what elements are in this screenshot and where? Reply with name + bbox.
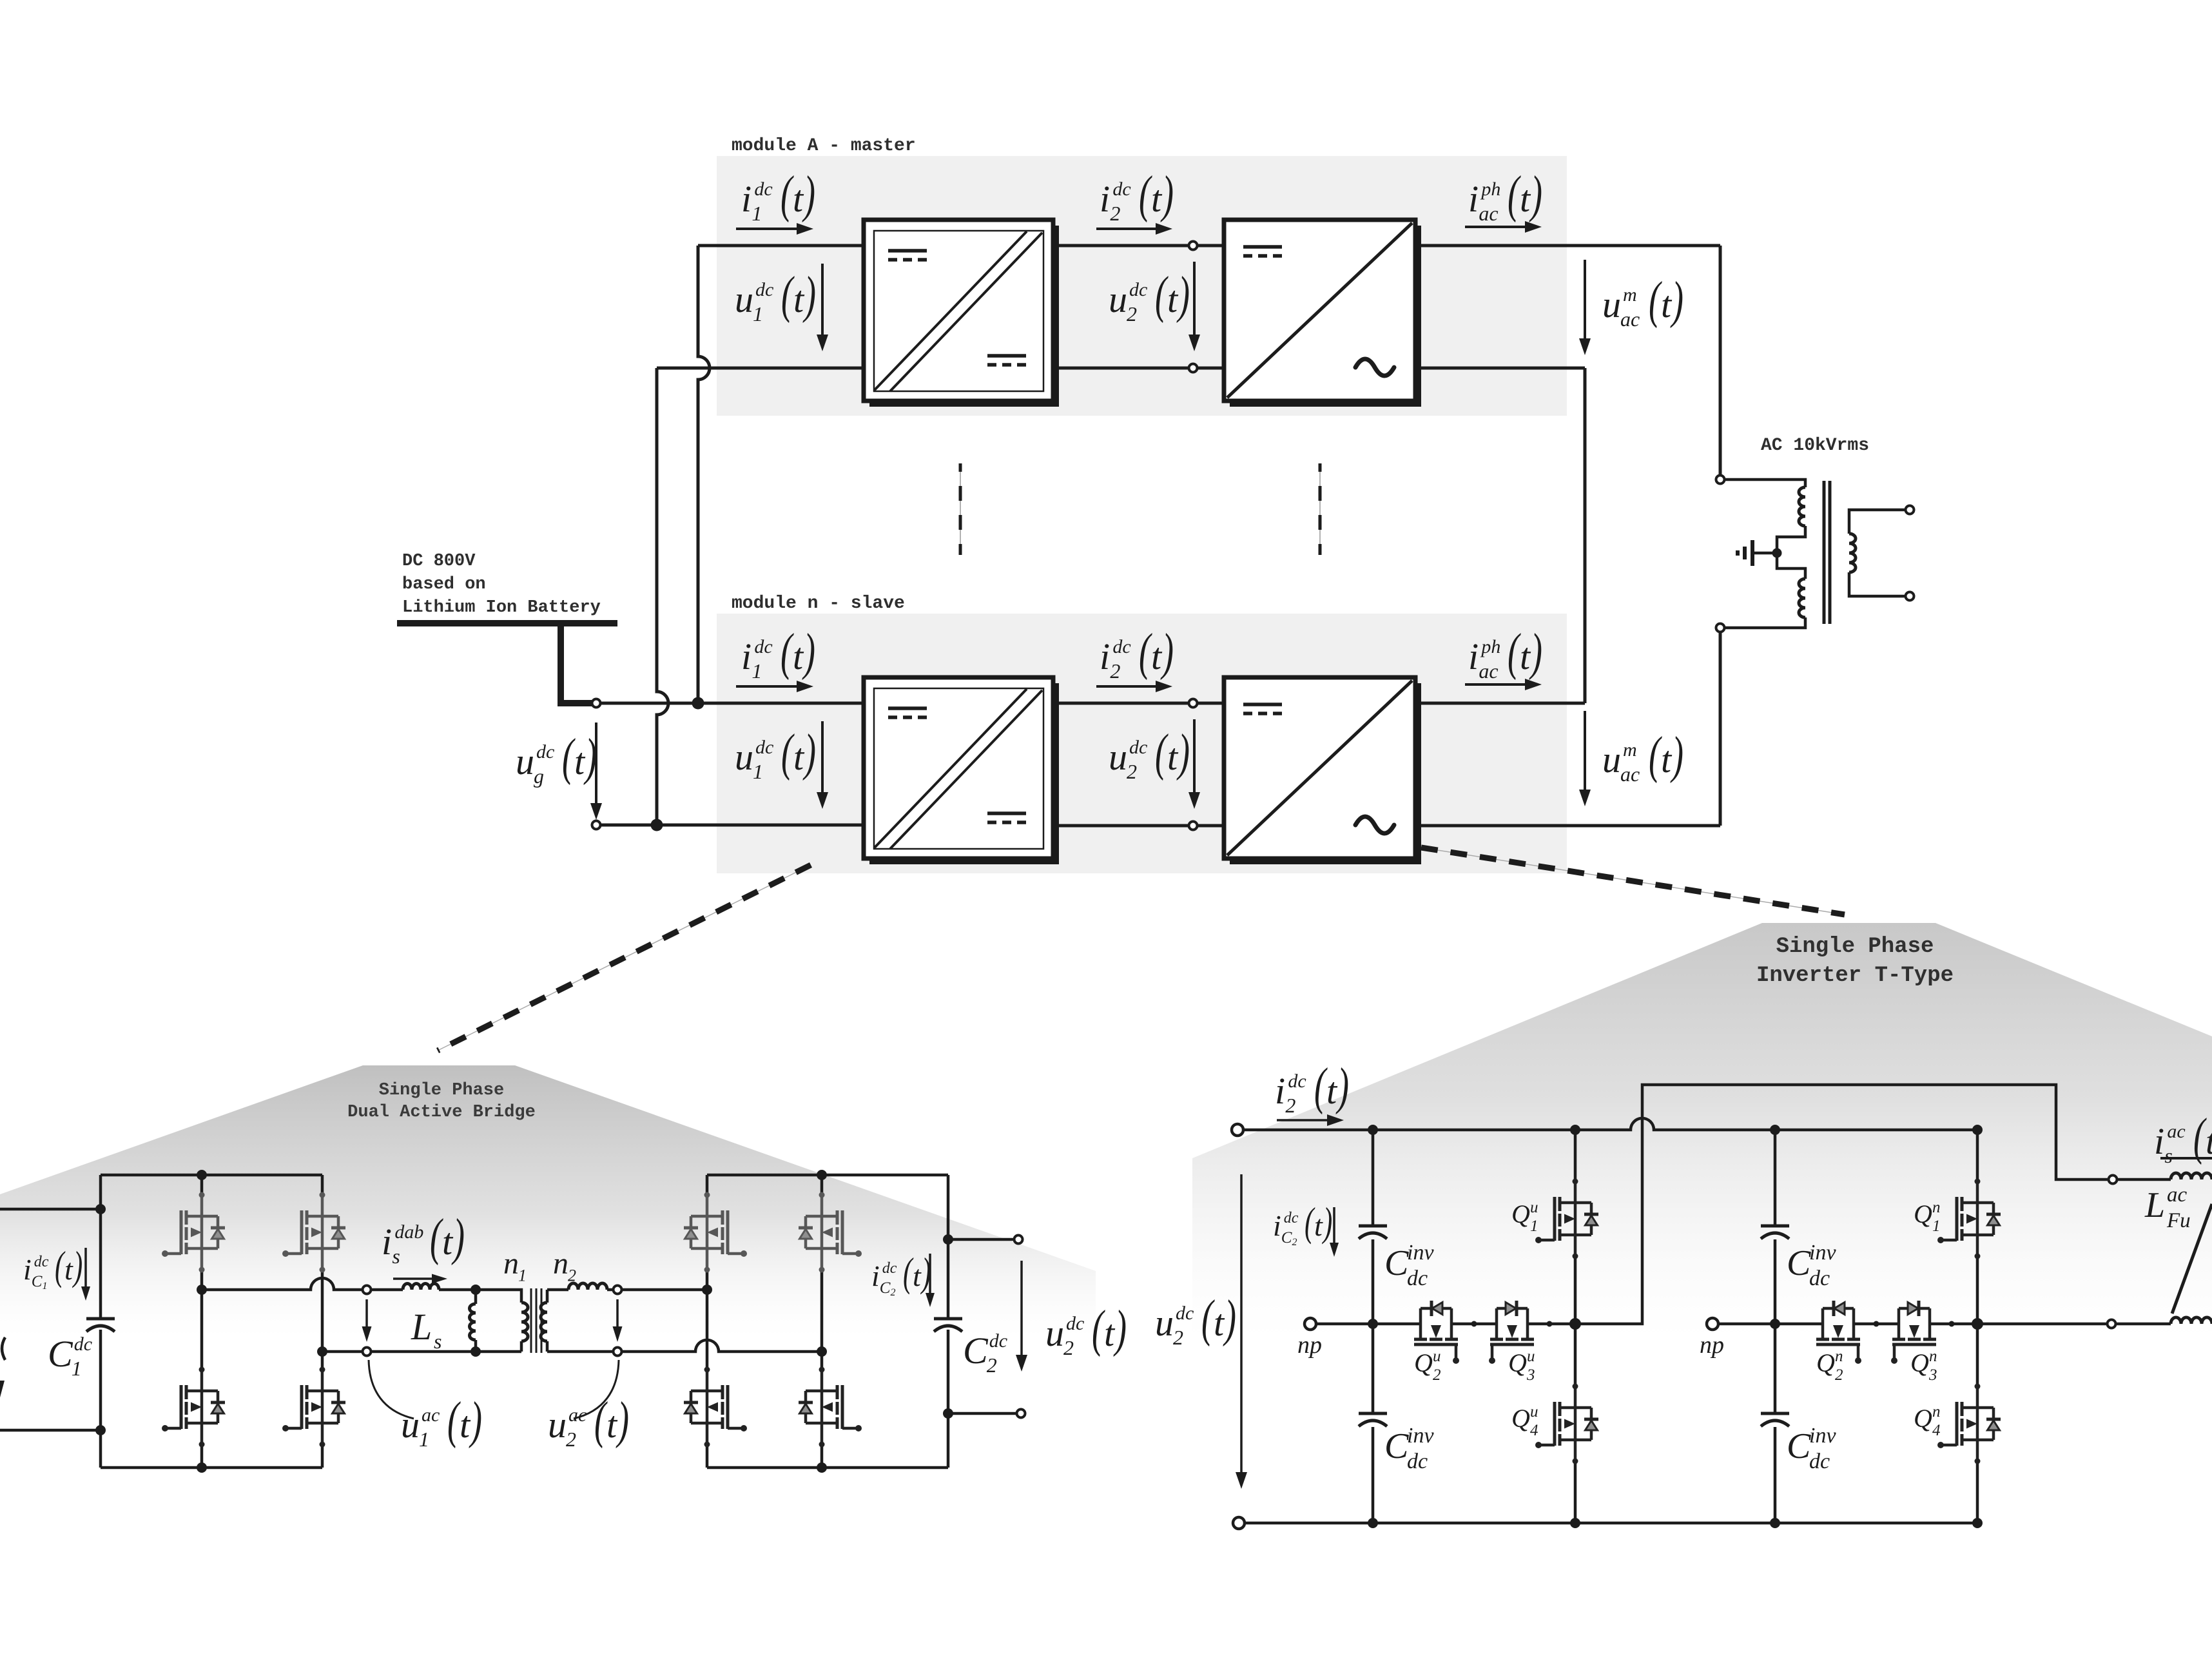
wire out- to terminal (948, 1412, 1016, 1415)
svg-text:t: t (1661, 739, 1673, 781)
wire: A dcac out - (1415, 367, 1585, 370)
wire coil2 to bottom terminal (1725, 617, 1805, 628)
svg-text:Cinvdc: Cinvdc (1384, 1424, 1434, 1473)
node u2ac + (614, 1286, 622, 1294)
svg-text:): ) (72, 1243, 83, 1288)
wire: DAB right leg2 (820, 1175, 824, 1468)
junction leg1 midpoint (197, 1285, 207, 1295)
wire: feed + from left edge (0, 1208, 101, 1211)
svg-text:): ) (616, 1391, 629, 1448)
node n dc-link + (1189, 699, 1198, 708)
arrow uac n (1584, 711, 1586, 790)
arrow u1 A (821, 264, 824, 335)
arrow u1 n (821, 721, 824, 792)
wire: A dcdc to dcac + (1053, 244, 1224, 247)
svg-text:iphac: iphac (1468, 635, 1500, 683)
pin dot Q3/leg n (1949, 1321, 1955, 1327)
transistor Q3 u (1489, 1301, 1534, 1364)
svg-text:t: t (793, 635, 804, 677)
arrow is dab (393, 1277, 432, 1280)
junction right leg2 mid (817, 1346, 827, 1357)
transistor DAB S6 (684, 1367, 747, 1448)
wire: lower ac out (322, 1350, 362, 1353)
svg-text:t: t (460, 1404, 471, 1446)
wire: feed - from left edge (0, 1429, 101, 1432)
wire: A dcac out + (1415, 244, 1720, 247)
transistor Q2 n (1816, 1301, 1861, 1364)
junction right leg1 mid (702, 1285, 712, 1295)
svg-text:udcg: udcg (516, 741, 554, 788)
core line 1 (530, 1288, 532, 1353)
core line 3 (541, 1288, 543, 1353)
node u1ac + (363, 1286, 371, 1294)
wire: down to transformer top (1719, 246, 1722, 475)
ellipsis dashes x=2048 (1319, 463, 1321, 555)
capacitor Cdcinv upper u (1359, 1226, 1387, 1239)
transistor DAB S8 (799, 1367, 862, 1448)
svg-text:iphac: iphac (1468, 178, 1500, 225)
node A dc-link - (1189, 364, 1198, 373)
primary coil 1 (1799, 487, 1805, 526)
junction magnetizing bottom (471, 1346, 481, 1357)
capacitor Cdcinv lower n (1761, 1413, 1789, 1426)
wire Q2-Q3 u (1451, 1323, 1497, 1326)
inductor lower coil (2171, 1317, 2212, 1324)
transformer core line 2 (1829, 481, 1832, 624)
core line 2 (536, 1288, 538, 1353)
cropped left-edge glyph (2, 1337, 5, 1360)
DC-AC inverter block (module n) (1230, 683, 1421, 864)
node n dc-link - (1189, 822, 1198, 830)
svg-text:idc2: idc2 (1275, 1070, 1306, 1117)
wire: u output loop (1575, 1085, 2108, 1324)
svg-text:): ) (1670, 271, 1683, 328)
wire np to Q2 u (1316, 1323, 1421, 1326)
junction cap rail mid n (1770, 1319, 1780, 1329)
wire to right bridge leg1 mid (622, 1288, 707, 1292)
wire: n dcdc to dcac - (1053, 824, 1224, 828)
svg-text:): ) (1670, 726, 1683, 783)
junction battery- / A- riser (651, 819, 663, 831)
svg-text:AC 10kVrms: AC 10kVrms (1761, 436, 1869, 456)
pin dot Q2/Q3 u (1471, 1321, 1477, 1327)
wire to Ls (371, 1288, 403, 1292)
svg-text:module A - master: module A - master (732, 136, 916, 156)
wire: cap rail u (1372, 1130, 1375, 1523)
arrow u2 n (1193, 719, 1196, 792)
transistor DAB S5 (684, 1192, 747, 1273)
wire np to Q2 n (1718, 1323, 1823, 1326)
svg-text:): ) (1335, 1057, 1349, 1114)
junction leg1 top (197, 1170, 207, 1180)
junction cap rail top n (1770, 1125, 1780, 1135)
svg-text:Qn2: Qn2 (1816, 1348, 1843, 1384)
wire out+ to terminal (948, 1238, 1014, 1241)
DC-AC inverter block (module A) (1230, 226, 1421, 407)
wire node to primary winding (476, 1290, 521, 1303)
svg-text:t: t (1104, 1312, 1116, 1354)
arrow i1 A (736, 228, 797, 230)
svg-text:uac2: uac2 (548, 1404, 587, 1451)
ground symbol (1751, 540, 1754, 566)
svg-text:t: t (442, 1221, 454, 1263)
node T-type in - (1233, 1517, 1245, 1529)
junction right leg2 bottom (817, 1462, 827, 1473)
junction magnetizing top (471, 1285, 481, 1295)
svg-text:): ) (802, 723, 816, 781)
wire: battery+ riser with hop over A- wire (698, 246, 710, 703)
svg-text:t: t (913, 1259, 922, 1292)
svg-text:t: t (1214, 1302, 1225, 1344)
DC-DC converter block (module A) (869, 226, 1059, 407)
wire to LFu (2117, 1178, 2171, 1181)
junction cap rail top u (1368, 1125, 1378, 1135)
junction right leg2 top (817, 1170, 827, 1180)
wire: module A input - (657, 367, 863, 370)
capacitor C1dc (86, 1319, 115, 1332)
magnetizing inductor branch (474, 1290, 478, 1304)
junction leg bottom n (1972, 1518, 1983, 1528)
svg-text:t: t (1326, 1070, 1338, 1112)
svg-text:t: t (1314, 1209, 1323, 1242)
battery bus bar (397, 620, 617, 626)
battery - terminal (592, 821, 601, 829)
arrow u2dc T-type (1240, 1174, 1243, 1472)
transistor Q4 n (1937, 1384, 2001, 1464)
wire Q2-Q3 n (1854, 1323, 1899, 1326)
transformer core line 1 (1823, 481, 1826, 624)
underline is ac (2160, 1157, 2212, 1159)
magnetizing coil (470, 1304, 476, 1340)
transistor DAB S2 (162, 1367, 225, 1448)
wire secondary bottom (1849, 572, 1905, 596)
pin dot Q3/leg u (1547, 1321, 1553, 1327)
node u2ac - (614, 1348, 622, 1356)
capacitor Cdcinv lower u (1359, 1413, 1387, 1426)
arrow u2ac (616, 1299, 619, 1326)
junction cap rail bottom n (1770, 1518, 1780, 1528)
svg-text:): ) (1529, 165, 1542, 222)
arrow i1 n (736, 685, 797, 688)
svg-text:udc2: udc2 (1155, 1302, 1194, 1349)
arrow iac n (1465, 683, 1525, 686)
battery + terminal (592, 699, 601, 708)
transformer primary bottom terminal (1716, 624, 1725, 632)
transistor DAB S1 (162, 1192, 225, 1273)
svg-text:): ) (802, 623, 815, 680)
svg-text:t: t (793, 736, 805, 778)
wire: n dcac out - (1415, 824, 1720, 828)
wire: n output (1977, 1323, 2107, 1326)
node np u (1305, 1318, 1316, 1330)
svg-text:): ) (1113, 1299, 1127, 1357)
svg-text:Qu2: Qu2 (1414, 1348, 1441, 1384)
node u2dc - (1017, 1410, 1025, 1418)
primary winding n1 (521, 1303, 528, 1341)
svg-text:umac: umac (1602, 739, 1640, 786)
junction battery+ / A riser (692, 697, 704, 710)
junction leg top n (1972, 1125, 1983, 1135)
svg-text:t: t (1167, 278, 1179, 320)
junction leg2 midpoint (317, 1346, 327, 1357)
wire: DAB leg1 (200, 1175, 204, 1468)
secondary series coil (568, 1283, 607, 1290)
wire: DAB right leg1 (706, 1175, 709, 1468)
junction cap rail bottom u (1368, 1518, 1378, 1528)
svg-text:t: t (64, 1253, 73, 1286)
junction leg mid n (1972, 1318, 1983, 1330)
transistor Q2 u (1414, 1301, 1459, 1364)
transistor DAB S3 (282, 1192, 345, 1273)
wire: right bridge top rail (707, 1174, 948, 1177)
svg-text:): ) (1529, 623, 1542, 680)
svg-text:t: t (1520, 178, 1531, 220)
T-type spotlight fan (1192, 923, 2212, 1341)
wire Q3-leg n (1930, 1323, 1977, 1326)
svg-text:): ) (1176, 266, 1190, 323)
dashed leader to T-type detail (1421, 848, 1845, 915)
battery lead (561, 625, 592, 703)
wire: C2 rail (947, 1175, 950, 1468)
svg-text:): ) (1176, 723, 1190, 781)
svg-text:): ) (1322, 1199, 1333, 1245)
wire: module A input + (698, 244, 863, 247)
arrow iC2 (929, 1254, 931, 1293)
svg-text:): ) (469, 1391, 482, 1448)
svg-text:Cdc2: Cdc2 (963, 1330, 1007, 1377)
wire to ground (1754, 552, 1777, 555)
wire Q3-leg u (1528, 1323, 1575, 1326)
arrow u2dc DAB (1020, 1261, 1023, 1355)
secondary top terminal (1906, 506, 1914, 514)
svg-text:): ) (802, 165, 815, 222)
wire: switch leg u (1574, 1130, 1577, 1523)
pin dot Q2/Q3 n (1874, 1321, 1879, 1327)
wire Ls to node (439, 1288, 476, 1292)
svg-text:t: t (1167, 736, 1179, 778)
junction leg top u (1570, 1125, 1580, 1135)
wire: DAB left bridge bottom rail (101, 1466, 322, 1470)
svg-text:): ) (1223, 1289, 1236, 1346)
junction feed+ (95, 1204, 106, 1214)
wire coil1 to center tap (1777, 526, 1805, 549)
inductor LFu coil (2171, 1173, 2212, 1179)
svg-text:): ) (1160, 165, 1174, 222)
svg-text:Cdc1: Cdc1 (48, 1333, 92, 1380)
svg-text:t: t (1151, 635, 1163, 677)
arrow iC1 (84, 1248, 87, 1286)
svg-text:Single Phase: Single Phase (1776, 935, 1934, 959)
svg-text:Inverter T-Type: Inverter T-Type (1756, 964, 1954, 988)
junction leg mid u (1569, 1318, 1581, 1330)
wire to lower coil (2116, 1323, 2171, 1326)
svg-text:): ) (802, 266, 816, 323)
svg-text:): ) (1160, 623, 1174, 680)
svg-text:Dual Active Bridge: Dual Active Bridge (347, 1103, 536, 1122)
svg-text:t: t (606, 1404, 618, 1446)
transistor Q1 u (1535, 1179, 1598, 1259)
svg-text:uac1: uac1 (401, 1404, 440, 1451)
svg-text:module n - slave: module n - slave (732, 594, 905, 614)
arrow iC2 T-type (1333, 1207, 1335, 1243)
junction cap rail mid u (1368, 1319, 1378, 1329)
svg-text:t: t (1520, 635, 1531, 677)
center tap junction (1772, 548, 1782, 558)
secondary coil (1849, 534, 1856, 572)
wire: right bridge bottom rail (707, 1466, 948, 1470)
svg-text:t: t (1661, 284, 1673, 325)
svg-text:umac: umac (1602, 284, 1640, 331)
junction C2 out - (943, 1408, 953, 1419)
svg-text:based on: based on (402, 575, 486, 594)
svg-text:Qn4: Qn4 (1914, 1403, 1941, 1439)
cropped transformer edge (2172, 1204, 2212, 1314)
leader u2ac (574, 1360, 619, 1419)
capacitor Cdcinv upper n (1761, 1226, 1789, 1239)
svg-text:Lithium Ion Battery: Lithium Ion Battery (402, 598, 601, 617)
arrow i2 n (1096, 685, 1156, 688)
node A dc-link + (1189, 242, 1198, 250)
svg-text:DC 800V: DC 800V (402, 552, 476, 571)
wire lower to primary (371, 1350, 521, 1353)
wire to right leg2 with hop over leg1 (622, 1340, 822, 1352)
node u2dc + (1014, 1236, 1023, 1244)
module A background (717, 156, 1567, 416)
junction C2 out + (943, 1234, 953, 1245)
wire: n dcdc to dcac + (1053, 702, 1224, 705)
arrow ug (595, 723, 597, 803)
transistor Q4 u (1535, 1384, 1598, 1464)
svg-text:Qu4: Qu4 (1511, 1403, 1538, 1439)
transformer primary top terminal (1716, 476, 1725, 484)
junction leg1 bottom (197, 1462, 207, 1473)
svg-text:Single Phase: Single Phase (379, 1081, 504, 1100)
wire: T bottom rail (1245, 1522, 1977, 1525)
junction feed- (95, 1425, 106, 1435)
node filter in - (2108, 1320, 2116, 1328)
junction leg bottom u (1570, 1518, 1580, 1528)
node T-type in + (1232, 1124, 1243, 1136)
wire: switch leg n (1976, 1130, 1979, 1523)
wire secondary bottom (547, 1350, 613, 1353)
capacitor C2dc (934, 1319, 962, 1332)
svg-text:): ) (583, 728, 597, 785)
arrow i2 T-type (1277, 1119, 1327, 1121)
svg-text:Qu3: Qu3 (1508, 1348, 1535, 1384)
arrow u2 A (1193, 262, 1196, 335)
arrow i2 A (1096, 228, 1156, 230)
svg-text:Cinvdc: Cinvdc (1787, 1424, 1836, 1473)
node np n (1707, 1318, 1718, 1330)
svg-text:t: t (2206, 1120, 2212, 1162)
svg-text:t: t (1151, 178, 1163, 220)
wire: battery+ to module n (600, 702, 863, 705)
wire secondary top (1849, 510, 1905, 534)
primary coil 2 (1799, 579, 1805, 617)
svg-text:t: t (793, 278, 805, 320)
node u1ac - (363, 1348, 371, 1356)
wire: DAB C1 rail (99, 1175, 102, 1468)
inductor Ls coil (403, 1284, 439, 1290)
svg-text:Qn3: Qn3 (1910, 1348, 1937, 1384)
secondary winding n2 (541, 1303, 547, 1341)
wire: battery- to module n (600, 824, 863, 827)
dashed leader to DAB detail (438, 865, 811, 1051)
wire: cap rail n (1774, 1130, 1777, 1523)
wire: upper ac out with hop over leg2 (202, 1278, 362, 1290)
wire: DAB leg2 (321, 1175, 324, 1468)
svg-text:np: np (1297, 1332, 1322, 1359)
module n background (717, 614, 1567, 873)
transistor DAB S7 (799, 1192, 862, 1273)
ellipsis dashes x=1490 (960, 463, 961, 555)
DAB spotlight fan (0, 1065, 1096, 1337)
wire winding to output coil (547, 1288, 568, 1292)
transistor DAB S4 (282, 1367, 345, 1448)
node filter in + (2109, 1176, 2117, 1184)
wire: DAB left bridge top rail (101, 1174, 322, 1177)
DC-DC converter block (module n) (869, 683, 1059, 864)
wire: n dcac out + (1415, 702, 1585, 705)
secondary bottom terminal (1906, 592, 1914, 601)
wire: A- riser with hop over battery+ (657, 368, 668, 825)
wire: T top rail with hop (1243, 1118, 1977, 1130)
transistor Q1 n (1937, 1179, 2001, 1259)
svg-text:np: np (1700, 1332, 1724, 1359)
wire: A dcdc to dcac - (1053, 367, 1224, 370)
wire: series link A- to n+ (1584, 368, 1587, 703)
svg-text:t: t (574, 741, 586, 782)
arrow uac A (1584, 260, 1586, 338)
svg-text:): ) (451, 1208, 465, 1265)
leader u1ac (369, 1360, 414, 1419)
wire center tap to coil2 (1777, 557, 1805, 579)
arrow u1ac (365, 1299, 368, 1326)
wire to primary coil1 (1725, 480, 1805, 487)
arrow iac A (1465, 226, 1525, 228)
wire: up to transformer bottom (1719, 632, 1722, 826)
transistor Q3 n (1891, 1301, 1936, 1364)
svg-text:t: t (793, 178, 804, 220)
